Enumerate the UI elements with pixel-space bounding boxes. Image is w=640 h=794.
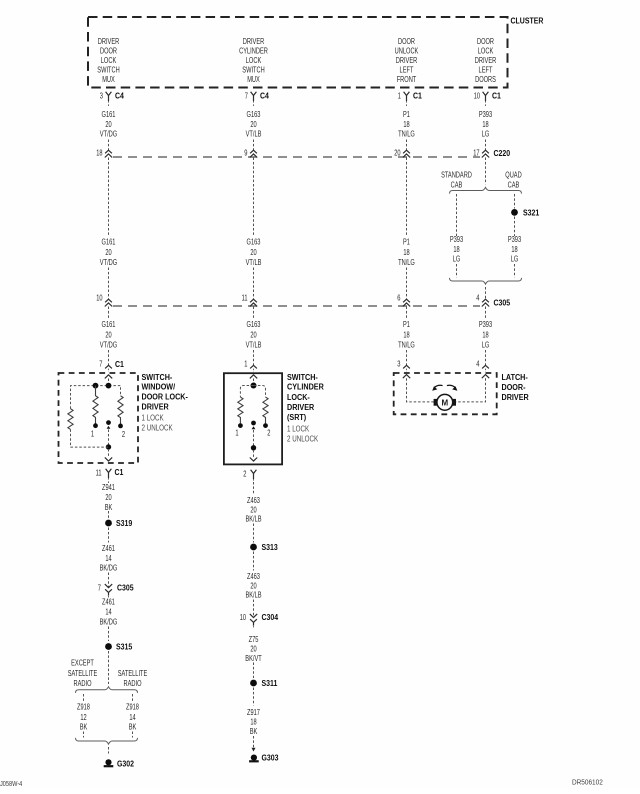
svg-text:20: 20: [394, 148, 401, 157]
wire: [406, 350, 408, 365]
wire: [253, 482, 255, 494]
svg-text:Z463: Z463: [247, 572, 260, 581]
svg-text:10: 10: [474, 92, 481, 101]
svg-text:SATELLITE: SATELLITE: [68, 669, 98, 678]
wire: [253, 379, 255, 384]
exit chevron: [250, 458, 257, 462]
svg-text:1: 1: [235, 429, 239, 438]
splice S313: [250, 544, 257, 551]
svg-text:DRIVER: DRIVER: [287, 403, 314, 412]
splice S321: [511, 209, 518, 216]
svg-text:LEFT: LEFT: [400, 65, 414, 74]
wire: [253, 140, 255, 151]
bottom rail: [71, 446, 109, 448]
wire: [253, 350, 255, 365]
entry chevron: [105, 375, 112, 379]
C220 crossing pin 18: [105, 150, 112, 153]
wire: [108, 379, 110, 386]
wire: [253, 552, 255, 571]
svg-text:Z461: Z461: [102, 597, 115, 606]
svg-text:CLUSTER: CLUSTER: [511, 16, 544, 25]
svg-text:DRIVER: DRIVER: [142, 402, 169, 411]
svg-text:BK/DG: BK/DG: [100, 563, 118, 572]
wire: [485, 307, 487, 312]
svg-text:4: 4: [476, 294, 480, 303]
wire: [108, 162, 110, 236]
terminal 1: [93, 423, 98, 428]
svg-text:TN/LG: TN/LG: [398, 258, 415, 267]
svg-text:MUX: MUX: [102, 75, 115, 84]
svg-text:SWITCH: SWITCH: [242, 65, 265, 74]
svg-text:G161: G161: [102, 237, 116, 246]
svg-text:18: 18: [511, 245, 518, 254]
svg-text:DR506102: DR506102: [572, 780, 603, 787]
svg-text:S315: S315: [116, 642, 133, 651]
svg-text:C1: C1: [492, 92, 501, 101]
svg-text:DRIVER: DRIVER: [502, 393, 529, 402]
svg-text:G161: G161: [102, 320, 116, 329]
wire: [406, 158, 408, 163]
wire satellite branch: [132, 694, 134, 702]
svg-text:10: 10: [240, 613, 247, 622]
svg-text:C1: C1: [115, 360, 124, 369]
svg-text:BK: BK: [250, 727, 258, 736]
svg-text:11: 11: [242, 294, 248, 303]
svg-text:DOOR: DOOR: [100, 46, 117, 55]
svg-text:20: 20: [105, 120, 112, 129]
svg-text:DRIVER: DRIVER: [243, 37, 265, 46]
svg-text:Z918: Z918: [126, 702, 139, 711]
svg-text:BK: BK: [80, 722, 88, 731]
svg-text:SWITCH: SWITCH: [97, 65, 120, 74]
svg-text:LG: LG: [511, 254, 519, 263]
svg-text:11: 11: [96, 468, 102, 477]
splice S319: [105, 520, 112, 527]
svg-text:2: 2: [122, 430, 126, 439]
C220 crossing pin 9: [250, 150, 257, 153]
svg-text:VT/LB: VT/LB: [246, 258, 262, 267]
svg-text:18: 18: [250, 717, 257, 726]
splice S311: [250, 680, 257, 687]
wire: [132, 732, 134, 738]
svg-text:CAB: CAB: [508, 180, 520, 189]
wire: [108, 573, 110, 588]
junction: [251, 445, 256, 450]
svg-text:C305: C305: [117, 583, 134, 592]
svg-text:2 UNLOCK: 2 UNLOCK: [287, 435, 319, 444]
svg-text:BK/LB: BK/LB: [245, 590, 261, 599]
svg-text:LOCK: LOCK: [101, 56, 117, 65]
svg-text:2 UNLOCK: 2 UNLOCK: [142, 423, 174, 432]
resistor (left): [68, 409, 73, 430]
wire: [456, 264, 458, 278]
svg-text:2: 2: [243, 469, 247, 478]
svg-text:1: 1: [398, 92, 402, 101]
svg-text:VT/LB: VT/LB: [246, 341, 262, 350]
svg-text:12: 12: [80, 713, 87, 722]
svg-text:P1: P1: [403, 110, 410, 119]
wire: [253, 450, 255, 458]
svg-text:TN/LG: TN/LG: [398, 341, 415, 350]
C305 in-line connector pin 7: [105, 584, 112, 588]
wiper contact: [251, 421, 256, 426]
svg-text:20: 20: [250, 330, 257, 339]
svg-text:WINDOW/: WINDOW/: [142, 383, 176, 392]
svg-text:LEFT: LEFT: [479, 65, 493, 74]
wire: [108, 307, 110, 312]
resistor position 1: [238, 397, 243, 423]
svg-text:UNLOCK: UNLOCK: [395, 46, 419, 55]
wire: [406, 268, 408, 300]
exit chevron: [105, 457, 112, 461]
svg-text:DRIVER: DRIVER: [98, 37, 120, 46]
svg-text:7: 7: [245, 92, 249, 101]
svg-text:G161: G161: [102, 110, 116, 119]
junction: [106, 383, 112, 389]
svg-text:P393: P393: [450, 235, 464, 244]
svg-text:BK/LB: BK/LB: [245, 514, 261, 523]
svg-text:1 LOCK: 1 LOCK: [287, 425, 310, 434]
wire: [406, 162, 408, 236]
wiper contact: [106, 420, 111, 425]
C305 crossing pin 4: [482, 299, 489, 302]
svg-text:Z463: Z463: [247, 496, 260, 505]
svg-text:Z918: Z918: [77, 702, 90, 711]
svg-text:DOOR: DOOR: [477, 37, 494, 46]
wire: [253, 736, 255, 748]
wire standard-cab branch: [456, 194, 458, 236]
svg-text:P393: P393: [479, 320, 493, 329]
svg-text:LG: LG: [482, 341, 490, 350]
wire: [253, 307, 255, 312]
cluster box (dashed): [88, 17, 508, 88]
wire: [108, 747, 110, 754]
svg-text:14: 14: [129, 713, 136, 722]
wire: [406, 140, 408, 151]
brace split top: [450, 187, 522, 193]
svg-text:BK: BK: [105, 503, 113, 512]
svg-text:20: 20: [250, 120, 257, 129]
brace merge bottom: [450, 278, 522, 284]
C304 in-line connector pin 10: [250, 614, 257, 618]
svg-text:18: 18: [453, 245, 460, 254]
wire: [253, 663, 255, 679]
C305 crossing pin 11: [250, 299, 257, 302]
junction: [93, 383, 99, 389]
svg-text:C4: C4: [115, 92, 124, 101]
svg-text:FRONT: FRONT: [397, 75, 417, 84]
wire: [253, 162, 255, 236]
wire: [253, 158, 255, 163]
rotation arrows: [434, 385, 442, 387]
wires to motor: [407, 378, 436, 402]
svg-text:EXCEPT: EXCEPT: [71, 658, 94, 667]
svg-text:CAB: CAB: [451, 180, 463, 189]
wire: [108, 140, 110, 151]
svg-text:C1: C1: [115, 468, 124, 477]
svg-text:1: 1: [244, 360, 248, 369]
wire: [108, 268, 110, 300]
svg-text:RADIO: RADIO: [74, 679, 92, 688]
wire quad-cab branch: [514, 194, 516, 209]
svg-text:VT/LB: VT/LB: [246, 129, 262, 138]
svg-text:J058W-4: J058W-4: [0, 781, 22, 788]
C305 crossing pin 10: [105, 299, 112, 302]
svg-text:S321: S321: [523, 208, 540, 217]
brace split top: [76, 687, 138, 693]
wire: [485, 311, 487, 319]
svg-text:LATCH-: LATCH-: [502, 373, 529, 382]
wire: [514, 217, 516, 237]
svg-text:P393: P393: [479, 110, 493, 119]
connector C305 dashed line: [113, 305, 480, 307]
wire: [485, 140, 487, 151]
svg-text:(SRT): (SRT): [287, 413, 307, 422]
svg-text:G163: G163: [247, 320, 261, 329]
svg-text:M: M: [441, 398, 448, 407]
svg-text:20: 20: [105, 248, 112, 257]
svg-text:VT/DG: VT/DG: [100, 129, 117, 138]
svg-text:SWITCH-: SWITCH-: [287, 373, 318, 382]
connector C220 dashed line: [113, 156, 480, 158]
wire: [253, 311, 255, 319]
svg-text:LG: LG: [482, 129, 490, 138]
svg-text:G163: G163: [247, 110, 261, 119]
switch U2: SWITCH-CYLINDER LOCK-DRIVER (SRT) (solid box): [224, 373, 282, 464]
C220 crossing pin 20: [403, 150, 410, 153]
svg-text:P393: P393: [508, 235, 522, 244]
svg-text:18: 18: [482, 330, 489, 339]
svg-text:DRIVER: DRIVER: [396, 56, 418, 65]
svg-text:DOORS: DOORS: [475, 75, 496, 84]
svg-text:14: 14: [105, 554, 112, 563]
svg-text:TN/LG: TN/LG: [398, 129, 415, 138]
ground G302: [105, 759, 111, 765]
svg-text:STANDARD: STANDARD: [441, 171, 472, 180]
wire: [406, 307, 408, 312]
svg-text:LOCK: LOCK: [478, 46, 494, 55]
svg-text:10: 10: [96, 294, 103, 303]
svg-text:QUAD: QUAD: [505, 171, 522, 180]
terminal 2: [263, 423, 268, 428]
svg-text:DOOR-: DOOR-: [502, 383, 526, 392]
switch U1: SWITCH-WINDOW/DOOR LOCK-DRIVER (dashed box): [59, 373, 139, 463]
svg-text:18: 18: [403, 330, 410, 339]
svg-text:S313: S313: [262, 543, 279, 552]
wire: [485, 287, 487, 299]
svg-text:7: 7: [99, 360, 103, 369]
svg-text:BK/VT: BK/VT: [245, 654, 261, 663]
svg-text:20: 20: [105, 330, 112, 339]
svg-text:18: 18: [96, 148, 103, 157]
svg-text:CYLINDER: CYLINDER: [239, 46, 268, 55]
wire except-satellite branch: [83, 694, 85, 702]
svg-text:3: 3: [100, 92, 104, 101]
wire: [485, 350, 487, 365]
branch arms: [240, 386, 253, 398]
ground G303: [251, 755, 257, 761]
wire: [83, 732, 85, 738]
resistor position 2: [263, 397, 268, 423]
wire: [108, 528, 110, 543]
wire: [485, 158, 487, 163]
wire: [514, 264, 516, 278]
svg-text:14: 14: [105, 607, 112, 616]
svg-text:C1: C1: [413, 92, 422, 101]
svg-text:20: 20: [250, 505, 257, 514]
svg-text:6: 6: [397, 294, 401, 303]
svg-text:P1: P1: [403, 320, 410, 329]
svg-text:G303: G303: [262, 754, 279, 763]
svg-text:SWITCH-: SWITCH-: [142, 373, 173, 382]
svg-text:C305: C305: [494, 298, 511, 307]
wire: [108, 511, 110, 519]
svg-text:SATELLITE: SATELLITE: [118, 669, 148, 678]
svg-text:17: 17: [473, 148, 480, 157]
entry chevrons: [403, 375, 410, 379]
svg-text:RADIO: RADIO: [124, 679, 142, 688]
svg-text:1: 1: [91, 429, 95, 438]
C220 crossing pin 17: [482, 150, 489, 153]
svg-text:BK: BK: [129, 722, 137, 731]
svg-text:C4: C4: [260, 92, 269, 101]
svg-text:CYLINDER: CYLINDER: [287, 382, 324, 391]
resistor position 2: [118, 396, 123, 424]
svg-text:DOOR LOCK-: DOOR LOCK-: [142, 393, 189, 402]
svg-text:S319: S319: [116, 519, 133, 528]
svg-text:20: 20: [250, 581, 257, 590]
wire: [108, 311, 110, 319]
brace merge bottom: [76, 738, 138, 744]
svg-text:1 LOCK: 1 LOCK: [142, 413, 165, 422]
svg-text:Z941: Z941: [102, 483, 115, 492]
terminal 2: [118, 424, 123, 429]
entry chevron: [250, 375, 257, 379]
top rail: [71, 386, 121, 409]
svg-text:LOCK-: LOCK-: [287, 393, 310, 402]
svg-text:Z75: Z75: [249, 635, 259, 644]
motor M: [434, 399, 438, 406]
svg-text:Z917: Z917: [247, 708, 260, 717]
wire: [108, 350, 110, 365]
C305 crossing pin 6: [403, 299, 410, 302]
wire: [253, 688, 255, 706]
svg-text:VT/DG: VT/DG: [100, 258, 117, 267]
wire: [406, 311, 408, 319]
wire: [108, 430, 110, 445]
wire: [253, 430, 255, 446]
svg-text:G163: G163: [247, 237, 261, 246]
junction: [106, 444, 111, 449]
svg-text:9: 9: [244, 148, 248, 157]
wire: [253, 600, 255, 618]
svg-text:DRIVER: DRIVER: [475, 56, 497, 65]
svg-text:VT/DG: VT/DG: [100, 341, 117, 350]
wire: [485, 162, 487, 184]
wire: [108, 158, 110, 163]
wire: [253, 268, 255, 300]
splice S315: [105, 643, 112, 650]
junction: [251, 383, 257, 389]
resistor position 1: [93, 386, 98, 424]
svg-text:2: 2: [267, 429, 271, 438]
svg-text:DOOR: DOOR: [398, 37, 415, 46]
svg-text:20: 20: [250, 248, 257, 257]
svg-text:BK/DG: BK/DG: [100, 617, 118, 626]
svg-text:LOCK: LOCK: [246, 56, 262, 65]
svg-text:18: 18: [403, 120, 410, 129]
svg-text:4: 4: [476, 360, 480, 369]
terminal 1: [238, 423, 243, 428]
wire: [108, 449, 110, 458]
svg-text:20: 20: [105, 493, 112, 502]
svg-text:C220: C220: [494, 149, 511, 158]
svg-text:7: 7: [98, 583, 102, 592]
wire: [108, 627, 110, 642]
svg-text:S311: S311: [262, 679, 278, 688]
wire: [108, 651, 110, 684]
svg-text:MUX: MUX: [247, 75, 260, 84]
svg-text:Z461: Z461: [102, 544, 115, 553]
svg-text:P1: P1: [403, 237, 410, 246]
svg-text:LG: LG: [453, 254, 461, 263]
svg-text:18: 18: [482, 120, 489, 129]
svg-text:G302: G302: [117, 759, 134, 768]
svg-text:20: 20: [250, 644, 257, 653]
svg-text:3: 3: [397, 360, 401, 369]
svg-text:18: 18: [403, 248, 410, 257]
svg-text:C304: C304: [262, 613, 279, 622]
wire: [253, 524, 255, 543]
motor unit: LATCH-DOOR-DRIVER (dashed box): [394, 373, 497, 414]
